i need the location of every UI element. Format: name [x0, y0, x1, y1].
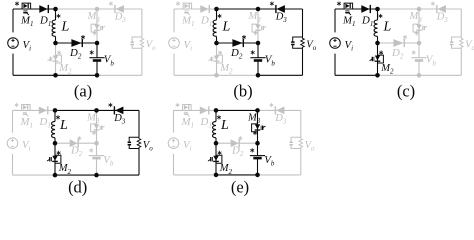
wire left rail a	[12, 9, 14, 32]
wire top-mid a	[56, 8, 98, 10]
diode D1 d	[39, 107, 47, 115]
wire Vb branch d	[96, 143, 98, 155]
output Vo b	[293, 37, 303, 48]
transistor M2 e	[218, 151, 221, 155]
voltage source Vi b	[169, 38, 180, 49]
wire bottom-left c	[335, 74, 378, 76]
wire right rail e	[300, 110, 302, 137]
svg-text:(a): (a)	[74, 81, 92, 100]
wire mid b	[217, 42, 259, 44]
wire M2 branch e	[215, 143, 217, 175]
node A d	[53, 108, 58, 113]
wire M3 branch e	[257, 110, 259, 143]
node A a	[53, 7, 58, 12]
wire top-left e	[174, 109, 217, 111]
transistor M3 d	[91, 124, 97, 132]
wire bottom-mid e	[216, 174, 258, 176]
node B e	[214, 141, 219, 146]
transistor M3 a	[91, 24, 97, 32]
battery Vb b	[251, 51, 254, 55]
wire bottom-mid d	[55, 174, 97, 176]
wire bottom-left a	[13, 74, 56, 76]
wire M2 branch a	[55, 43, 57, 75]
inductor L e	[215, 110, 217, 121]
wire top-left a	[13, 8, 56, 10]
node bottom-C d	[94, 173, 99, 178]
node C c	[417, 7, 422, 12]
node B c	[375, 41, 380, 46]
node A e	[214, 108, 219, 113]
node C e	[255, 108, 260, 113]
wire Vb branch b	[257, 43, 259, 58]
transistor M3 b	[252, 24, 258, 32]
node A b	[214, 7, 219, 12]
diode D2 d	[70, 139, 78, 147]
wire mid a	[56, 42, 98, 44]
wire right rail b	[302, 9, 304, 37]
output Vo d	[129, 137, 139, 148]
wire right rail d	[138, 110, 140, 137]
node bottom-C e	[255, 173, 260, 178]
wire M3 branch b	[257, 9, 259, 43]
wire bottom-right c	[419, 74, 461, 76]
node C a	[95, 7, 100, 12]
transistor M1 d	[15, 103, 18, 107]
diode D3 e	[270, 103, 273, 107]
node B a	[53, 41, 58, 46]
wire left rail e	[173, 110, 175, 132]
wire Vb branch a	[96, 43, 98, 58]
wire top-right d	[97, 109, 140, 111]
transistor M2 a	[57, 51, 60, 55]
diode D2 c	[393, 39, 403, 47]
node E b	[256, 41, 261, 46]
node E d	[94, 141, 99, 146]
wire M3 branch a	[96, 9, 98, 43]
battery Vb e	[251, 149, 254, 153]
transistor M1 c	[337, 2, 340, 6]
wire top-left b	[174, 8, 217, 10]
diode D3 a	[109, 2, 112, 6]
wire bottom-right e	[258, 174, 301, 176]
svg-text:L: L	[383, 20, 392, 35]
diode D3 d	[109, 103, 112, 107]
node bottom-C c	[417, 73, 422, 78]
wire bottom-right a	[97, 74, 142, 76]
wire bottom-mid b	[217, 74, 259, 76]
wire Vb branch e	[257, 143, 259, 155]
wire right rail a	[141, 9, 143, 37]
wire bottom-mid a	[56, 74, 98, 76]
diode D1 b	[200, 5, 208, 13]
diode D2 a	[71, 39, 81, 47]
transistor M2 c	[379, 51, 382, 55]
wire left rail b	[173, 9, 175, 32]
wire M3 branch c	[418, 9, 420, 43]
output Vo e	[291, 137, 301, 148]
wire bottom-left e	[174, 174, 217, 176]
transistor M1 b	[176, 2, 179, 6]
wire bottom-right d	[97, 174, 140, 176]
node E a	[95, 41, 100, 46]
node A c	[375, 7, 380, 12]
wire M2 branch c	[377, 43, 379, 75]
wire top-right e	[258, 109, 301, 111]
wire right rail c	[460, 9, 462, 37]
wire M3 branch d	[96, 110, 98, 143]
wire top-left d	[13, 109, 56, 111]
transistor M3 e	[252, 124, 258, 132]
node B b	[214, 41, 219, 46]
svg-text:(d): (d)	[68, 177, 87, 196]
inductor L a	[55, 9, 57, 20]
wire mid c	[378, 42, 420, 44]
voltage source Vi e	[168, 138, 179, 149]
node bottom-A c	[375, 73, 380, 78]
diode D2 e	[231, 139, 239, 147]
output Vo c	[452, 37, 462, 48]
wire bottom-left b	[174, 74, 217, 76]
inductor L d	[54, 110, 56, 121]
wire left rail d	[12, 110, 14, 132]
wire top-mid c	[378, 8, 420, 10]
wire top-right a	[97, 8, 142, 10]
svg-text:L: L	[59, 118, 68, 133]
node bottom-C b	[256, 73, 261, 78]
wire top-right c	[419, 8, 461, 10]
wire left rail c	[334, 9, 336, 32]
node bottom-C a	[95, 73, 100, 78]
node C b	[256, 7, 261, 12]
transistor M3 c	[413, 24, 419, 32]
diode D1 c	[361, 5, 369, 13]
node E e	[255, 141, 260, 146]
inductor L c	[377, 9, 379, 20]
diode D3 b	[270, 2, 273, 6]
wire bottom-mid c	[378, 74, 420, 76]
wire mid e	[216, 142, 258, 144]
svg-text:(c): (c)	[397, 82, 415, 101]
wire M2 branch d	[54, 143, 56, 175]
transistor M2 d	[57, 151, 60, 155]
voltage source Vi d	[7, 138, 18, 149]
diode D1 e	[200, 107, 208, 115]
voltage source Vi a	[8, 38, 19, 49]
wire Vb branch c	[418, 43, 420, 58]
svg-text:(b): (b)	[233, 82, 252, 101]
wire bottom-right b	[258, 74, 303, 76]
wire M2 branch b	[216, 43, 218, 75]
transistor M1 e	[176, 103, 179, 107]
transistor M1 a	[15, 2, 18, 6]
inductor L b	[216, 9, 218, 20]
transistor M2 b	[218, 51, 221, 55]
node bottom-A e	[214, 173, 219, 178]
wire top-left c	[335, 8, 378, 10]
wire top-mid e	[216, 109, 258, 111]
wire top-right b	[258, 8, 303, 10]
wire top-mid d	[55, 109, 97, 111]
svg-text:L: L	[61, 20, 70, 35]
voltage source Vi c	[330, 38, 341, 49]
diode D1 a	[39, 5, 47, 13]
node E c	[417, 41, 422, 46]
node bottom-A d	[53, 173, 58, 178]
battery Vb d	[90, 149, 93, 153]
wire top-mid b	[217, 8, 259, 10]
node C d	[94, 108, 99, 113]
node bottom-A b	[214, 73, 219, 78]
svg-text:L: L	[222, 20, 231, 35]
wire bottom-left d	[13, 174, 56, 176]
node B d	[53, 141, 58, 146]
node bottom-A a	[53, 73, 58, 78]
svg-text:(e): (e)	[231, 177, 249, 196]
battery Vb a	[90, 51, 93, 55]
svg-text:L: L	[220, 118, 229, 133]
output Vo a	[132, 37, 142, 48]
battery Vb c	[412, 51, 415, 55]
diode D2 b	[232, 39, 242, 47]
wire mid d	[55, 142, 97, 144]
diode D3 c	[431, 2, 434, 6]
